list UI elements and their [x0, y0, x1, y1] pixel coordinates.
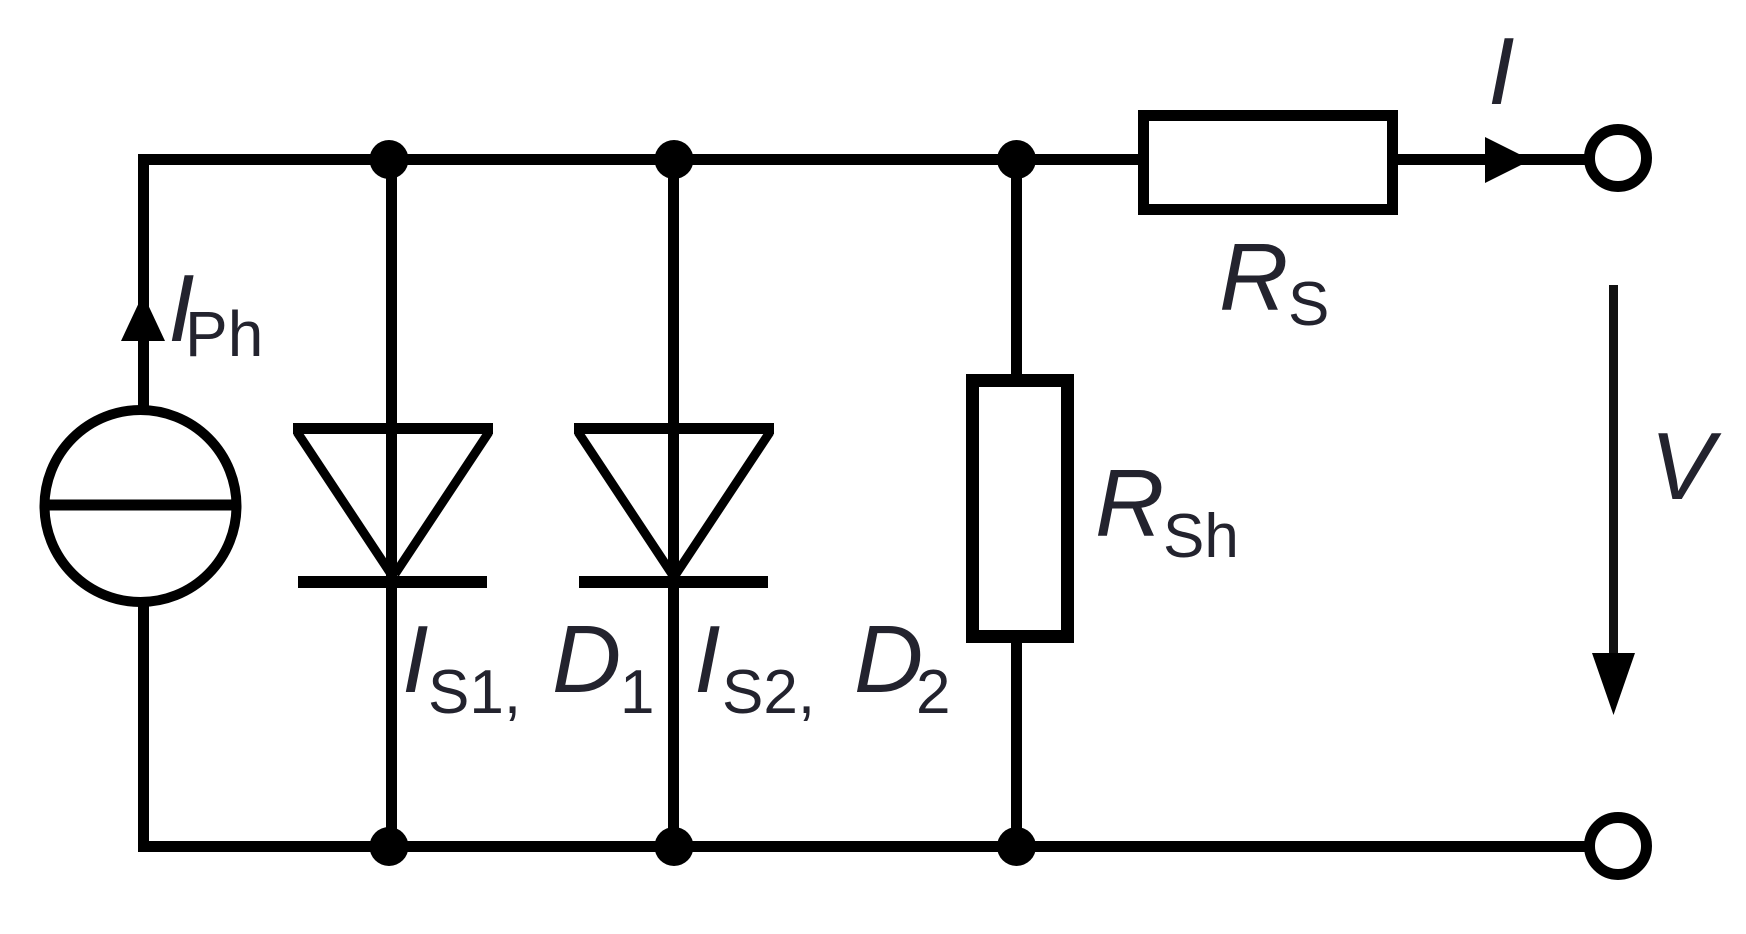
- resistor RS: [1144, 116, 1393, 210]
- terminal top: [1590, 130, 1647, 187]
- wire left branch lower: [138, 602, 149, 852]
- wire diode D2 branch: [668, 160, 679, 847]
- svg-text:R: R: [1095, 450, 1164, 557]
- node bottom RSh: [997, 827, 1036, 866]
- svg-text:V: V: [1650, 413, 1722, 520]
- node top D1: [370, 140, 409, 179]
- label RSh: [1095, 450, 1239, 571]
- wire shunt branch upper: [1011, 160, 1022, 379]
- label IS1, D1: [402, 606, 654, 727]
- terminal bottom: [1590, 818, 1647, 875]
- wire left branch upper: [138, 154, 149, 412]
- wire diode D1 branch: [386, 160, 397, 847]
- svg-text:S2,: S2,: [722, 658, 815, 727]
- node bottom D1: [370, 827, 409, 866]
- label IPh: [168, 255, 263, 370]
- svg-text:S: S: [1288, 270, 1329, 339]
- diode D2: [574, 429, 774, 583]
- wire shunt branch lower: [1011, 640, 1022, 847]
- label RS: [1219, 224, 1329, 339]
- svg-text:1: 1: [620, 658, 654, 727]
- node bottom D2: [655, 827, 694, 866]
- svg-text:2: 2: [916, 658, 950, 727]
- svg-text:S1,: S1,: [428, 658, 521, 727]
- diode D1: [293, 429, 493, 583]
- wire from Rs to output terminal: [1393, 154, 1586, 165]
- arrow V: [1592, 285, 1635, 715]
- arrow I: [1485, 137, 1531, 183]
- svg-text:D: D: [552, 606, 621, 713]
- wire top bus: [138, 154, 1143, 165]
- svg-text:I: I: [402, 606, 429, 713]
- wire bottom bus: [138, 841, 1586, 852]
- svg-text:R: R: [1219, 224, 1288, 331]
- node top RSh: [997, 140, 1036, 179]
- node top D2: [655, 140, 694, 179]
- label IS2, D2: [694, 606, 950, 727]
- arrow IPh: [121, 294, 165, 341]
- svg-text:Ph: Ph: [185, 298, 263, 370]
- svg-text:I: I: [1488, 18, 1515, 125]
- svg-text:Sh: Sh: [1163, 502, 1239, 571]
- svg-text:I: I: [694, 606, 721, 713]
- resistor RSh: [973, 381, 1068, 637]
- svg-text:D: D: [854, 606, 923, 713]
- current source U1: [44, 410, 237, 602]
